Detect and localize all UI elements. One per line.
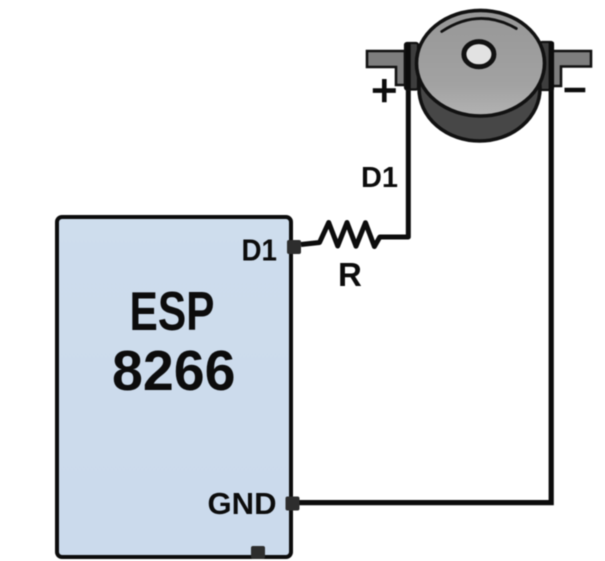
wire over left tab (406, 43, 411, 89)
svg-text:R: R (338, 256, 362, 293)
buzzer right mounting tab (540, 42, 553, 90)
buzzer left lead bracket (367, 51, 405, 85)
svg-text:ESP: ESP (130, 280, 215, 342)
svg-text:8266: 8266 (112, 339, 236, 403)
buzzer left mounting tab (405, 43, 418, 90)
svg-text:D1: D1 (242, 233, 278, 268)
svg-text:GND: GND (208, 487, 277, 521)
ESP8266 module body (57, 217, 291, 557)
plus sign (+ terminal) (373, 79, 396, 102)
buzzer center button (464, 42, 494, 67)
pin pad bottom (251, 546, 265, 559)
wire: D1 pin to resistor to buzzer + terminal (301, 45, 408, 247)
buzzer base (dark cylinder bottom) (419, 36, 540, 141)
pin pad GND (286, 497, 300, 511)
buzzer right lead bracket (552, 51, 592, 86)
minus sign (- terminal) (565, 88, 586, 93)
buzzer top arc highlight (442, 18, 517, 31)
wire: buzzer - terminal down and left to GND pin (299, 45, 551, 503)
wire over right tab (549, 42, 554, 90)
pin pad D1 (287, 240, 301, 254)
svg-text:D1: D1 (361, 162, 398, 194)
buzzer top face (417, 10, 545, 116)
